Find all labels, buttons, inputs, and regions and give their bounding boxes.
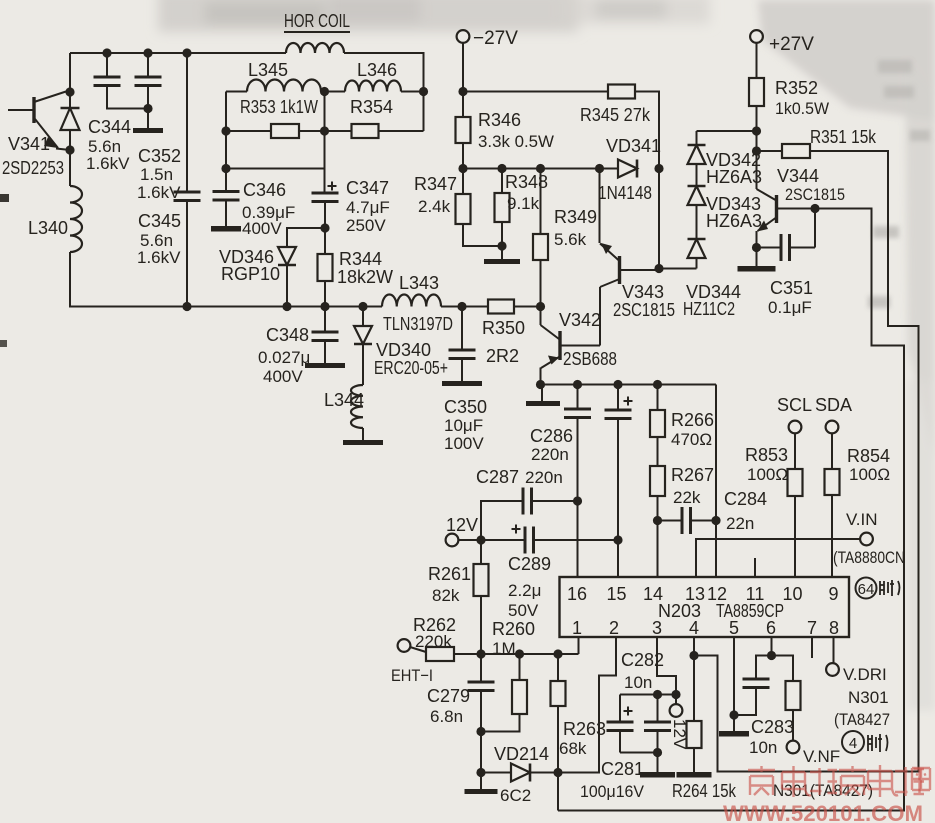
node VD341 cathode bbox=[654, 164, 663, 173]
node C288 top bbox=[613, 380, 622, 389]
wire left column x226 bbox=[225, 92, 227, 192]
node collector V341 bbox=[65, 87, 74, 96]
node C279 mid bbox=[476, 727, 485, 736]
ground below pin5 bbox=[719, 731, 749, 737]
svg-text:C284: C284 bbox=[724, 489, 767, 509]
inductor L343 bbox=[382, 295, 441, 307]
scan artifact: top bleed-through smudge band bbox=[158, 0, 710, 32]
wire top bus right to corner bbox=[344, 53, 424, 131]
svg-text:R267: R267 bbox=[671, 465, 714, 485]
svg-text:HZ6A3: HZ6A3 bbox=[706, 167, 762, 187]
zener VD342 HZ6A3 bbox=[696, 131, 698, 145]
svg-text:V341: V341 bbox=[8, 134, 50, 154]
scan artifact: dark specks at left edge bbox=[0, 194, 9, 202]
capacitor electrolytic pin15 bbox=[617, 385, 619, 411]
svg-text:RGP10: RGP10 bbox=[221, 264, 280, 284]
node C282 top bbox=[653, 690, 662, 699]
svg-text:HZ11C2: HZ11C2 bbox=[683, 299, 735, 319]
svg-text:11: 11 bbox=[746, 584, 765, 604]
node C286 top bbox=[573, 380, 582, 389]
resistor R267 22k bbox=[657, 437, 659, 466]
node VD346 bus bbox=[282, 302, 291, 311]
svg-text:1M: 1M bbox=[492, 639, 516, 658]
svg-text:2R2: 2R2 bbox=[486, 346, 519, 366]
svg-text:(TA8427: (TA8427 bbox=[834, 710, 890, 729]
damper diode of V341 bbox=[69, 92, 71, 108]
node 12V-2 junction bbox=[671, 690, 680, 699]
node R347/R348 ground bbox=[497, 241, 506, 250]
svg-text:68k: 68k bbox=[559, 739, 587, 758]
node R349 top bbox=[536, 164, 545, 173]
svg-text:4: 4 bbox=[849, 735, 857, 752]
svg-text:SDA: SDA bbox=[815, 395, 852, 415]
svg-text:9.1k: 9.1k bbox=[507, 194, 540, 213]
svg-text:VD341: VD341 bbox=[606, 136, 661, 156]
svg-text:C287: C287 bbox=[476, 467, 519, 487]
resistor to V.NF bbox=[772, 656, 794, 682]
node top bus C345 bbox=[182, 48, 191, 57]
svg-text:12: 12 bbox=[707, 584, 727, 604]
svg-text:250V: 250V bbox=[346, 216, 386, 235]
svg-text:−27V: −27V bbox=[473, 28, 518, 49]
svg-text:400V: 400V bbox=[242, 219, 282, 238]
svg-text:2SD2253: 2SD2253 bbox=[2, 158, 64, 178]
wire pin4 down bbox=[693, 637, 695, 721]
svg-text:13: 13 bbox=[685, 584, 705, 604]
wire to zener column bbox=[697, 130, 757, 132]
svg-text:SCL: SCL bbox=[777, 395, 812, 415]
svg-text:V342: V342 bbox=[559, 310, 601, 330]
svg-text:22k: 22k bbox=[673, 488, 701, 507]
wire V.IN to pin13 bbox=[696, 539, 860, 577]
wire pin6 down bbox=[771, 637, 773, 656]
circled 4 pin ref bbox=[842, 731, 864, 753]
capacitor C286 220n bbox=[577, 385, 579, 410]
svg-text:470Ω: 470Ω bbox=[671, 430, 712, 449]
svg-text:C348: C348 bbox=[266, 325, 309, 345]
svg-text:+27V: +27V bbox=[769, 34, 814, 55]
svg-text:R260: R260 bbox=[492, 619, 535, 639]
wire pin8 to V.DRI bbox=[833, 637, 835, 663]
node VD214 left bbox=[476, 768, 485, 777]
terminal V.DRI bbox=[826, 663, 839, 676]
node pin5 C283 bbox=[729, 710, 738, 719]
svg-text:C281: C281 bbox=[601, 759, 644, 779]
node C350 bus bbox=[457, 302, 466, 311]
inductor HOR COIL bbox=[286, 43, 344, 53]
node pin4 branch bbox=[689, 651, 698, 660]
node V344 collector bbox=[810, 204, 819, 213]
capacitor C281 100u 16V electrolytic bbox=[619, 695, 621, 723]
node R344 bus bbox=[320, 302, 329, 311]
node R351 takeoff bbox=[752, 146, 761, 155]
svg-text:V.NF: V.NF bbox=[803, 747, 840, 766]
svg-text:R261: R261 bbox=[428, 564, 471, 584]
svg-text:100μ16V: 100μ16V bbox=[580, 782, 645, 801]
svg-text:8: 8 bbox=[829, 618, 839, 638]
diode VD214 6C2 bbox=[481, 772, 511, 774]
svg-text:R345 27k: R345 27k bbox=[580, 105, 651, 125]
node R263 bottom bbox=[553, 768, 562, 777]
svg-text:4: 4 bbox=[689, 618, 699, 638]
ground below R348 bbox=[484, 259, 520, 264]
capacitor C282 10n bbox=[657, 695, 659, 723]
resistor R344 18k2W bbox=[324, 228, 326, 254]
label jiao of TA8880CN bbox=[880, 580, 900, 596]
capacitor C351 0.1uF bbox=[757, 247, 782, 249]
wire pin3 to C281/C282 node bbox=[657, 637, 676, 695]
capacitor C279 6.8n bbox=[480, 654, 482, 682]
node junction row R346 bbox=[458, 164, 467, 173]
resistor R345 27k bbox=[463, 91, 608, 93]
capacitor C346 0.39uF 400V bbox=[213, 190, 240, 193]
svg-text:1.6kV: 1.6kV bbox=[137, 248, 181, 267]
transistor V341 2SD2253 bbox=[8, 109, 33, 111]
svg-text:L340: L340 bbox=[28, 218, 68, 238]
watermark chinese characters row bbox=[748, 766, 775, 795]
resistor R347 2.4k bbox=[462, 169, 464, 195]
inductor L344 bbox=[351, 385, 363, 428]
svg-text:100Ω: 100Ω bbox=[849, 465, 890, 484]
svg-text:VD340: VD340 bbox=[376, 340, 431, 360]
svg-text:3.3k 0.5W: 3.3k 0.5W bbox=[478, 132, 554, 151]
diode VD341 1N4148 bbox=[618, 160, 637, 178]
capacitor C284 22n bbox=[658, 520, 683, 522]
ground stub below bus bbox=[541, 385, 543, 402]
node C289 right on pin15 wire bbox=[613, 535, 622, 544]
svg-text:R352: R352 bbox=[775, 78, 818, 98]
svg-text:(TA8880CN: (TA8880CN bbox=[833, 548, 905, 567]
capacitor C348 0.027u 400V bbox=[324, 307, 326, 333]
svg-text:R346: R346 bbox=[478, 110, 521, 130]
node pin6 branch bbox=[767, 651, 776, 660]
resistor R261 82k bbox=[480, 540, 482, 564]
resistor R264 15k bbox=[687, 721, 702, 748]
svg-text:6.8n: 6.8n bbox=[430, 707, 463, 726]
capacitor C347 4.7uF 250V electrolytic bbox=[312, 192, 339, 195]
wire R263 node to bottom rail bbox=[557, 773, 559, 811]
svg-text:WWW.520101.COM: WWW.520101.COM bbox=[723, 801, 923, 823]
node V343 base / VD344 bbox=[654, 264, 663, 273]
svg-text:14: 14 bbox=[643, 584, 663, 604]
capacitor C352 1.5n 1.6kV bbox=[147, 53, 149, 77]
svg-text:R349: R349 bbox=[554, 207, 597, 227]
resistor R354 bbox=[352, 124, 379, 138]
svg-text:10n: 10n bbox=[624, 673, 652, 692]
terminal -27V bbox=[457, 30, 470, 43]
wire C281/C282 top rail bbox=[620, 694, 676, 696]
ground below C346 bbox=[211, 226, 241, 232]
svg-text:HZ6A3: HZ6A3 bbox=[706, 211, 762, 231]
resistor R266 470 bbox=[657, 385, 659, 411]
wire L340 to main bus bbox=[70, 252, 382, 307]
capacitor C350 10uF 100V bbox=[461, 307, 463, 351]
resistor R348 9.1k bbox=[501, 169, 503, 194]
circled 64 pin ref bbox=[856, 578, 877, 599]
svg-text:R266: R266 bbox=[671, 410, 714, 430]
wire x325 column top bbox=[324, 92, 326, 194]
resistor R349 5.6k bbox=[540, 169, 542, 235]
zener VD344 HZ11C2 bbox=[688, 238, 706, 241]
resistor R262 220k bbox=[410, 647, 426, 652]
ground below C348 bbox=[305, 363, 345, 368]
svg-text:16: 16 bbox=[567, 584, 587, 604]
wire 12V to junction bbox=[458, 539, 481, 541]
wire EHT row bbox=[454, 653, 579, 655]
inductor L345 bbox=[226, 91, 247, 93]
diode VD340 ERC20-05 bbox=[362, 307, 364, 327]
svg-text:2.4k: 2.4k bbox=[418, 197, 451, 216]
svg-text:L343: L343 bbox=[399, 273, 439, 293]
svg-text:N301: N301 bbox=[848, 688, 889, 707]
wire junction row bbox=[463, 168, 618, 170]
svg-text:R354: R354 bbox=[350, 97, 393, 117]
svg-text:R350: R350 bbox=[482, 318, 525, 338]
node R348 top bbox=[497, 164, 506, 173]
node top bus C344 bbox=[102, 48, 111, 57]
resistor R263 68k bbox=[557, 654, 559, 681]
node top bus C352 bbox=[143, 48, 152, 57]
node L345/L346 bbox=[321, 91, 325, 93]
inductor L340 bbox=[70, 186, 82, 252]
node R266 top bbox=[653, 380, 662, 389]
node R353/R354 row mid bbox=[299, 130, 325, 132]
node L346 right bbox=[419, 87, 428, 96]
lower bus wire bbox=[541, 384, 717, 386]
svg-text:EHT−I: EHT−I bbox=[391, 666, 433, 685]
scan artifact: faint bleed text right edge bbox=[868, 60, 930, 308]
svg-text:82k: 82k bbox=[432, 586, 460, 605]
svg-text:R348: R348 bbox=[505, 172, 548, 192]
node R263 top bbox=[553, 649, 562, 658]
wire bus corner to pin12 bbox=[715, 385, 717, 578]
resistor R350 2R2 bbox=[488, 300, 514, 314]
svg-text:1k0.5W: 1k0.5W bbox=[775, 99, 829, 118]
wire pin7 stub bbox=[811, 637, 813, 658]
ground below L344 bbox=[343, 440, 383, 445]
svg-text:C347: C347 bbox=[346, 178, 389, 198]
terminal V.NF bbox=[787, 741, 800, 754]
node C281/C282 bottom bbox=[653, 748, 662, 757]
wire R345 to corner bbox=[635, 92, 659, 269]
wire pin1 riser bbox=[578, 637, 580, 654]
svg-text:VD214: VD214 bbox=[494, 744, 549, 764]
svg-text:18k2W: 18k2W bbox=[337, 267, 393, 287]
ground below V344 emitter bbox=[756, 248, 758, 267]
resistor R346 3.3k 0.5W bbox=[462, 92, 464, 118]
wire R351 to right rail outer bbox=[694, 151, 919, 772]
svg-text:220k: 220k bbox=[415, 632, 452, 651]
svg-text:R347: R347 bbox=[414, 174, 457, 194]
capacitor C287 220n bbox=[481, 501, 523, 540]
svg-text:6C2: 6C2 bbox=[500, 786, 531, 805]
svg-text:0.1μF: 0.1μF bbox=[768, 298, 812, 317]
svg-text:1: 1 bbox=[572, 618, 582, 638]
scan artifact: skewed page edge, top right gray band bbox=[758, 0, 935, 710]
svg-text:R264 15k: R264 15k bbox=[672, 781, 737, 801]
svg-text:C283: C283 bbox=[751, 717, 794, 737]
svg-text:3: 3 bbox=[652, 618, 662, 638]
svg-text:C352: C352 bbox=[138, 146, 181, 166]
IC N203 TA8859CP bbox=[560, 577, 850, 637]
capacitor C289 2.2u 50V electrolytic bbox=[481, 539, 525, 541]
node C347/R344/VD346 bbox=[320, 223, 329, 232]
node V342 emitter bus bbox=[536, 380, 545, 389]
svg-text:V344: V344 bbox=[777, 166, 819, 186]
svg-text:V.DRI: V.DRI bbox=[843, 665, 887, 684]
node C284 left bbox=[653, 516, 662, 525]
label jiao of TA8427 bbox=[868, 734, 888, 752]
svg-text:1.5n: 1.5n bbox=[140, 165, 173, 184]
diode VD346 RGP10 bbox=[287, 228, 325, 247]
zener VD343 HZ6A3 bbox=[688, 185, 706, 188]
node main bus C345 bbox=[182, 302, 191, 311]
node C344/C352 junction bbox=[143, 104, 152, 113]
node R260 top bbox=[515, 649, 524, 658]
svg-text:C282: C282 bbox=[621, 650, 664, 670]
svg-text:R351 15k: R351 15k bbox=[810, 127, 877, 147]
transistor V344 2SC1815 bbox=[756, 151, 758, 189]
node V344 emitter / C351 bbox=[752, 243, 761, 252]
resistor R260 1M bbox=[519, 654, 521, 680]
terminal +27V bbox=[750, 30, 763, 43]
svg-text:2.2μ: 2.2μ bbox=[508, 581, 541, 600]
ground below C279 bbox=[480, 773, 482, 790]
svg-text:2SC1815: 2SC1815 bbox=[785, 185, 845, 204]
inductor L346 bbox=[345, 81, 401, 92]
svg-text:4.7μF: 4.7μF bbox=[346, 198, 390, 217]
wire -27V down bbox=[462, 43, 464, 92]
capacitor C345 5.6n 1.6kV bbox=[186, 53, 188, 192]
svg-text:220n: 220n bbox=[525, 468, 563, 487]
svg-text:0.027μ: 0.027μ bbox=[258, 348, 310, 367]
node emitter V341 bbox=[65, 145, 74, 154]
wire VD214 row to pin2 bbox=[558, 637, 616, 773]
svg-text:2SC1815: 2SC1815 bbox=[613, 300, 675, 320]
wire base node to zener column bbox=[659, 268, 697, 270]
node 12V junction bbox=[476, 535, 485, 544]
wire cross link to C347 column bbox=[226, 168, 325, 170]
ground below R264 bbox=[677, 772, 712, 778]
wire to L340 bbox=[69, 150, 71, 186]
terminal EHT-I bbox=[398, 639, 411, 652]
svg-text:22n: 22n bbox=[726, 514, 754, 533]
node V342 base feed bbox=[536, 302, 545, 311]
svg-text:15: 15 bbox=[606, 584, 626, 604]
svg-text:V343: V343 bbox=[622, 282, 664, 302]
svg-text:2: 2 bbox=[609, 618, 619, 638]
svg-text:100Ω: 100Ω bbox=[747, 465, 788, 484]
capacitor C283 10n bbox=[756, 656, 772, 680]
resistor R853 100 bbox=[794, 433, 796, 469]
node C287 right on pin16 wire bbox=[573, 496, 582, 505]
node VD340 bus bbox=[358, 302, 367, 311]
svg-text:1N4148: 1N4148 bbox=[598, 183, 652, 203]
svg-text:R854: R854 bbox=[847, 446, 890, 466]
svg-text:C344: C344 bbox=[88, 117, 131, 137]
svg-text:R344: R344 bbox=[339, 249, 382, 269]
svg-text:N301(TA8427): N301(TA8427) bbox=[773, 781, 873, 800]
svg-text:5.6k: 5.6k bbox=[554, 230, 587, 249]
svg-text:220n: 220n bbox=[531, 445, 569, 464]
svg-text:C351: C351 bbox=[770, 278, 813, 298]
transistor V343 2SC1815 bbox=[618, 256, 621, 284]
svg-text:100V: 100V bbox=[444, 434, 484, 453]
transistor V342 2SB688 bbox=[540, 307, 542, 326]
svg-text:C279: C279 bbox=[427, 686, 470, 706]
capacitor C344 5.6n 1.6kV bbox=[106, 53, 108, 77]
ground below C352 bbox=[133, 128, 163, 133]
svg-text:C350: C350 bbox=[444, 397, 487, 417]
svg-text:400V: 400V bbox=[263, 367, 303, 386]
ground below C350 bbox=[442, 381, 482, 386]
svg-text:HOR COIL: HOR COIL bbox=[284, 11, 350, 31]
svg-text:ERC20-05+: ERC20-05+ bbox=[374, 358, 448, 378]
svg-text:50V: 50V bbox=[508, 601, 539, 620]
svg-text:64: 64 bbox=[858, 581, 875, 598]
resistor R353 1k1W bbox=[226, 130, 271, 132]
resistor R352 1k 0.5W bbox=[756, 43, 758, 78]
terminal SDA bbox=[826, 421, 839, 434]
wire top bus bbox=[70, 52, 286, 54]
node zener top bbox=[752, 126, 761, 135]
svg-text:R353 1k1W: R353 1k1W bbox=[240, 97, 318, 117]
svg-text:L345: L345 bbox=[248, 60, 288, 80]
terminal 12V bbox=[446, 534, 459, 547]
resistor R854 100 bbox=[831, 433, 833, 469]
ground below C281/C282 bbox=[657, 753, 659, 773]
svg-text:9: 9 bbox=[828, 584, 838, 604]
svg-text:10n: 10n bbox=[749, 738, 777, 757]
wire collector to right rail inner bbox=[558, 209, 904, 811]
svg-text:10: 10 bbox=[782, 584, 802, 604]
svg-text:L346: L346 bbox=[357, 60, 397, 80]
node VD341 emitter column bbox=[595, 164, 604, 173]
terminal 12V bottom bbox=[670, 704, 683, 717]
node R345 takeoff bbox=[458, 87, 467, 96]
wire left drop from top bus bbox=[69, 53, 71, 92]
node C279 top bbox=[476, 649, 485, 658]
svg-text:7: 7 bbox=[807, 618, 817, 638]
svg-text:10μF: 10μF bbox=[444, 416, 483, 435]
terminal SCL bbox=[789, 421, 802, 434]
svg-text:5: 5 bbox=[729, 618, 739, 638]
pin 11 stub bbox=[754, 558, 756, 577]
svg-text:R853: R853 bbox=[745, 445, 788, 465]
node R353 row left bbox=[221, 126, 230, 135]
svg-text:L344: L344 bbox=[324, 390, 364, 410]
svg-text:6: 6 bbox=[766, 618, 776, 638]
svg-text:C345: C345 bbox=[138, 211, 181, 231]
wire V343 emitter column bbox=[599, 169, 601, 244]
svg-text:TLN3197D: TLN3197D bbox=[383, 314, 453, 334]
svg-text:C346: C346 bbox=[243, 180, 286, 200]
node C346 top bbox=[221, 164, 230, 173]
node C284 right bbox=[711, 516, 720, 525]
wire pin5 down bbox=[733, 637, 735, 731]
resistor R351 15k bbox=[757, 150, 783, 152]
svg-text:12V: 12V bbox=[446, 515, 478, 535]
terminal V.IN bbox=[860, 533, 873, 546]
svg-text:V.IN: V.IN bbox=[846, 510, 878, 529]
svg-text:1.6kV: 1.6kV bbox=[86, 154, 130, 173]
svg-text:C286: C286 bbox=[530, 426, 573, 446]
svg-text:2SB688: 2SB688 bbox=[563, 349, 617, 369]
svg-text:C289: C289 bbox=[508, 554, 551, 574]
